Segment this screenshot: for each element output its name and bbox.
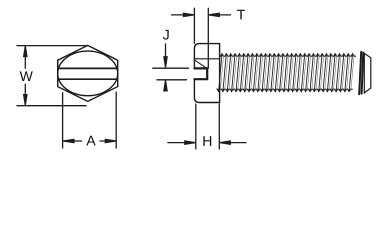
label T: [237, 10, 245, 20]
screw slot (end view): [58, 68, 118, 79]
threaded shank top crest line: [220, 54, 356, 56]
J upper extension line: [153, 67, 189, 69]
J dimension arrow up: [165, 87, 167, 91]
H dimension leader right: [227, 142, 247, 144]
chamfered point: [364, 53, 371, 93]
thread flank lines: [219, 54, 353, 92]
J lower extension line: [157, 79, 187, 81]
W top extension line: [17, 45, 87, 47]
screw head outline (side view): [194, 44, 219, 103]
slot chamfer diagonal: [195, 60, 207, 68]
threaded shank bottom crest line: [217, 89, 352, 91]
H dimension leader left: [168, 142, 189, 144]
A right extension line: [115, 92, 117, 148]
T dimension leader left: [172, 14, 189, 16]
screw slot notch (side view): [194, 68, 207, 79]
head periphery circle: [58, 51, 118, 96]
J dimension arrow down: [165, 44, 167, 61]
hexagon head outline (end view): [58, 45, 118, 101]
T left extension line (head face): [193, 8, 195, 43]
A dimension line: [63, 140, 116, 142]
label A: [86, 136, 95, 146]
label J: [163, 30, 169, 40]
T right extension line (slot bottom): [207, 8, 209, 68]
W bottom extension line: [17, 105, 86, 107]
head chamfer line: [194, 58, 219, 60]
A left extension line: [62, 93, 64, 148]
T dimension leader right: [215, 14, 231, 16]
label W: [20, 71, 33, 81]
label H: [203, 136, 211, 146]
H right extension line: [218, 104, 220, 149]
H left extension line: [195, 104, 197, 149]
thread run-out at tip: [359, 52, 363, 94]
W dimension line: [24, 47, 26, 105]
